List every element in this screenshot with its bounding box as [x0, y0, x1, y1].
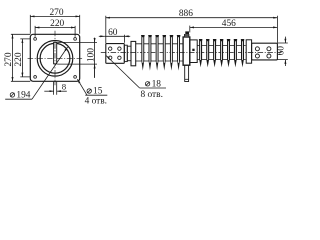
dim 270 top: extension lines: [30, 15, 79, 34]
svg-text:886: 886: [179, 9, 193, 19]
centerline through bar: [54, 43, 56, 63]
dim 100: bottom arrow: [94, 64, 96, 77]
svg-text:220: 220: [14, 52, 24, 66]
svg-text:270: 270: [49, 8, 63, 18]
svg-text:456: 456: [222, 19, 236, 29]
bolt hole bottom-left: [34, 76, 37, 79]
outer circle D194: [37, 41, 73, 77]
dim 8: left arrow line: [44, 90, 53, 92]
dim 886: extension lines: [106, 16, 278, 43]
svg-text:8: 8: [62, 81, 67, 91]
label D194: leader to circle: [32, 47, 68, 99]
left pad hole 2: [118, 47, 121, 50]
left pad hole 3: [109, 56, 112, 59]
right pad hole 2: [267, 47, 271, 51]
label D194: diameter symbol: [10, 93, 14, 97]
dim 270 left: extension lines: [11, 34, 30, 81]
drain tube below flange: [185, 65, 189, 81]
svg-text:4 отв.: 4 отв.: [85, 96, 107, 106]
left shed fin 3: [155, 35, 159, 71]
label D15: underline shelf: [85, 94, 107, 96]
flange plate (front): [30, 34, 79, 81]
mounting flange (side): [183, 37, 190, 65]
left shed fin 4: [162, 35, 166, 71]
centerline vertical front view: [54, 31, 56, 86]
left shed fin 1: [141, 35, 145, 71]
label D18: diameter symbol: [145, 82, 149, 86]
bolt head (filled): [185, 31, 189, 34]
bolt hole bottom-right: [74, 76, 77, 79]
right shed fin 2: [206, 39, 210, 67]
dim 220 left: dimension line: [21, 39, 23, 77]
dim 220 left: extension lines: [20, 39, 30, 77]
dim 60 left: dimension line: [105, 35, 125, 37]
right pad hole 3: [255, 54, 259, 58]
left shed fin 6: [177, 35, 181, 71]
right pad hole 1: [255, 47, 259, 51]
dim 60 left: outside arrows: [99, 35, 105, 37]
right core top line: [197, 44, 245, 46]
dim 456: extension line: [189, 26, 191, 33]
dim 100: extension lines: [57, 42, 97, 64]
left terminal pad: [106, 44, 125, 64]
left shed fin 5: [170, 35, 174, 71]
left core bottom line: [136, 60, 183, 62]
left pad hole 1: [109, 47, 112, 50]
centerline axis side view: [101, 52, 282, 54]
left collar: [127, 46, 131, 61]
right shed fin 3: [213, 39, 217, 67]
svg-text:100: 100: [87, 48, 97, 62]
left pad hole 4: [118, 56, 121, 59]
svg-text:270: 270: [4, 52, 14, 66]
left shed fin 2: [148, 35, 152, 71]
dim 270 top: dimension line: [30, 15, 79, 17]
bolt hole top-right: [74, 38, 77, 41]
label D18: underline shelf: [140, 87, 166, 89]
right core bottom line: [197, 59, 245, 61]
inner circle: [40, 43, 70, 73]
svg-text:60: 60: [108, 28, 118, 38]
left core top line: [136, 43, 183, 45]
right collar after flange: [190, 40, 197, 63]
dim 270 left: dimension line: [12, 34, 14, 81]
right pad hole 4: [267, 54, 271, 58]
dim 886: dimension line: [106, 17, 278, 19]
dim 220 top: extension lines: [35, 26, 75, 37]
svg-text:220: 220: [50, 19, 64, 29]
label D18: leader to pad: [106, 56, 139, 88]
bolt dot on collar: [192, 49, 194, 51]
dim 60 right: arrow lines: [284, 37, 286, 43]
centerline horizontal front view: [28, 57, 83, 59]
bolt hole top-left: [34, 38, 37, 41]
dim 100: dimension line: [94, 38, 96, 78]
right shed fin 7: [241, 39, 245, 67]
drain tube cap line: [185, 78, 189, 80]
right shed fin 4: [220, 39, 224, 67]
dim 8: extension lines: [54, 82, 57, 95]
label D194: underline shelf: [5, 98, 32, 100]
left pad boss plate: [124, 45, 127, 61]
right shed fin 5: [227, 39, 231, 67]
dim 456: dimension line: [190, 26, 278, 28]
svg-text:60: 60: [276, 46, 286, 56]
bolt washer on flange top: [184, 34, 189, 37]
label D15: leader from bolt hole: [77, 79, 87, 95]
right terminal pad: [252, 43, 278, 60]
right shed fin 1: [199, 39, 203, 67]
svg-text:8 отв.: 8 отв.: [140, 90, 162, 100]
label D15: diameter symbol: [87, 89, 91, 93]
left end disc: [131, 41, 136, 65]
right shed fin 6: [234, 39, 238, 67]
right end disc: [246, 40, 251, 63]
terminal bar (front): [54, 42, 57, 63]
dim 220 top: dimension line: [35, 27, 75, 29]
svg-text:15: 15: [93, 87, 103, 97]
dim 100: top arrow: [94, 38, 96, 42]
dim 8: right arrow line: [57, 90, 67, 92]
svg-text:18: 18: [152, 80, 162, 90]
dim 60 left: extension line: [123, 35, 125, 43]
dim 60 right: extension lines: [277, 43, 287, 60]
